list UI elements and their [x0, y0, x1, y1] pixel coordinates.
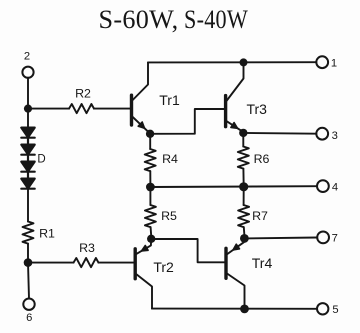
- svg-text:S-40W: S-40W: [184, 5, 248, 34]
- svg-text:R1: R1: [39, 227, 55, 241]
- node dot Tr2 emitter: [147, 235, 155, 243]
- resistor R4: [145, 134, 156, 187]
- svg-text:Tr3: Tr3: [246, 101, 267, 117]
- svg-text:6: 6: [26, 312, 32, 324]
- node junction bottom rail: [240, 305, 249, 314]
- resistor R6: [238, 133, 249, 187]
- svg-text:1: 1: [331, 57, 337, 69]
- wire link Tr1 emitter to Tr3 base: [150, 109, 224, 134]
- wire: [28, 262, 74, 264]
- node junction R4/node4: [146, 183, 155, 192]
- wire link Tr2 emitter node to Tr4 base: [151, 239, 224, 262]
- terminal 2: [22, 67, 33, 78]
- terminal 4: [317, 180, 329, 192]
- terminal 3: [316, 128, 328, 140]
- wire: [27, 244, 29, 263]
- svg-text:R6: R6: [254, 152, 270, 166]
- svg-text:R3: R3: [79, 241, 95, 255]
- wire: [27, 78, 29, 106]
- resistor R2: [69, 104, 94, 113]
- svg-text:7: 7: [332, 233, 338, 245]
- resistor R1: [23, 222, 34, 244]
- wire: [94, 108, 130, 110]
- wire node 7 rail: [244, 237, 317, 240]
- wire node 4 rail: [150, 185, 317, 188]
- node dot Tr3 emitter: [239, 129, 247, 137]
- transistor Tr2: [135, 239, 152, 309]
- svg-text:R2: R2: [75, 87, 91, 101]
- transistor Tr1: [132, 62, 149, 132]
- terminal 1: [316, 56, 328, 68]
- svg-text:Tr1: Tr1: [159, 92, 180, 108]
- resistor R7: [238, 187, 249, 234]
- wire: [28, 108, 69, 110]
- svg-text:5: 5: [332, 304, 338, 316]
- resistor R3: [74, 258, 99, 267]
- wire: [28, 263, 29, 299]
- terminal 7: [317, 232, 329, 244]
- svg-text:R5: R5: [161, 209, 177, 223]
- wire top rail: [148, 61, 316, 63]
- svg-text:Tr2: Tr2: [153, 259, 174, 275]
- node junction top rail: [240, 58, 248, 66]
- wire node 3 rail: [243, 132, 316, 135]
- node dot Tr4 emitter: [240, 234, 249, 243]
- resistor R5: [145, 187, 156, 235]
- svg-text:R4: R4: [162, 152, 178, 166]
- svg-text:2: 2: [24, 51, 30, 63]
- node junction R6/R7: [239, 182, 248, 191]
- svg-text:S-60W,: S-60W,: [99, 5, 179, 34]
- wire: [99, 262, 134, 264]
- svg-text:3: 3: [332, 130, 338, 142]
- svg-text:R7: R7: [252, 209, 268, 223]
- node junction A: [24, 105, 32, 113]
- svg-text:D: D: [37, 154, 45, 166]
- svg-text:4: 4: [332, 182, 338, 194]
- transistor Tr4: [226, 238, 245, 309]
- wire: [27, 109, 29, 128]
- wire bottom rail: [152, 308, 317, 310]
- terminal 6: [23, 299, 34, 310]
- wire: [27, 189, 29, 222]
- node dot Tr1 emitter: [146, 130, 154, 138]
- svg-text:Tr4: Tr4: [252, 255, 273, 271]
- terminal 5: [317, 303, 328, 314]
- diode D (chain of 4): [21, 128, 34, 189]
- node junction B: [24, 258, 33, 267]
- transistor Tr3: [226, 62, 244, 131]
